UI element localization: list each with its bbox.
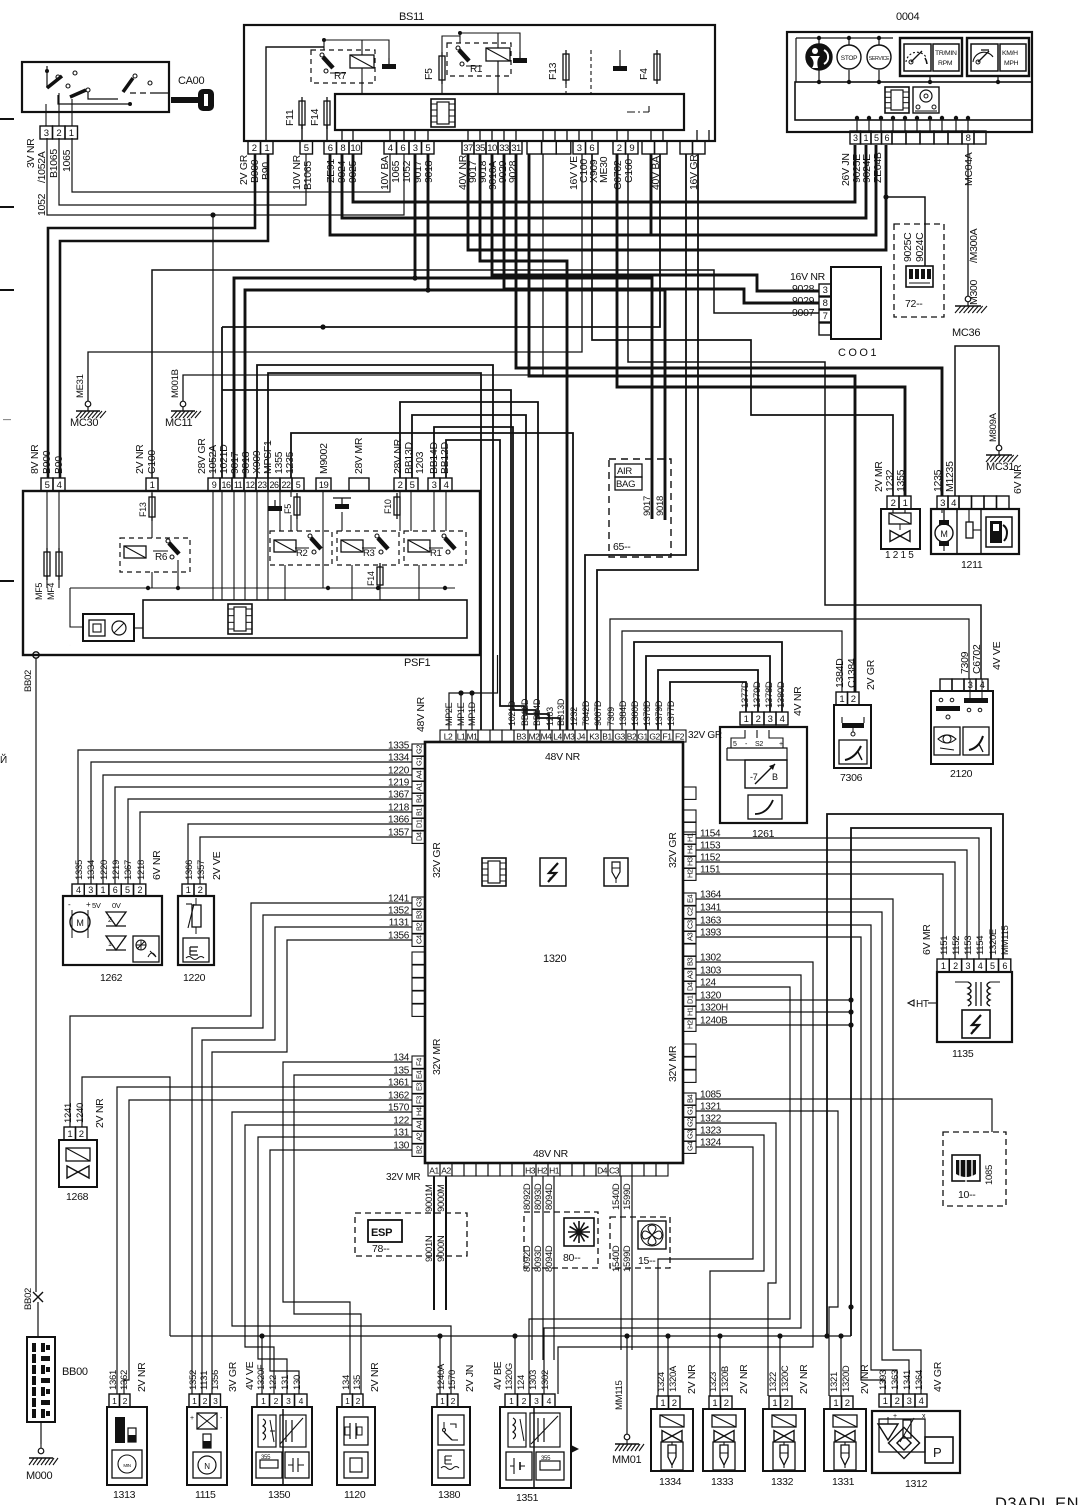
ECU left pin column blanks bbox=[412, 952, 425, 964]
svg-text:1052: 1052 bbox=[36, 193, 48, 216]
svg-text:2: 2 bbox=[672, 1398, 677, 1409]
svg-text:3: 3 bbox=[940, 498, 945, 509]
svg-text:ME30: ME30 bbox=[598, 156, 610, 183]
wire C6702 BS11 pin2 to 1215 pin1 bbox=[617, 154, 905, 496]
svg-text:H3: H3 bbox=[686, 857, 695, 866]
svg-text:7306: 7306 bbox=[840, 772, 863, 784]
component 7306 box bbox=[834, 705, 871, 768]
svg-text:1220: 1220 bbox=[99, 860, 110, 880]
svg-text:1: 1 bbox=[883, 1396, 888, 1407]
branch ZE04B to 72-- box bbox=[883, 194, 888, 199]
svg-text:1: 1 bbox=[69, 128, 74, 139]
svg-text:1218: 1218 bbox=[136, 860, 147, 880]
fuse F4 BS11 bbox=[654, 54, 660, 80]
svg-text:S2: S2 bbox=[755, 741, 763, 748]
svg-text:M4: M4 bbox=[541, 732, 553, 742]
svg-text:C160: C160 bbox=[623, 159, 635, 183]
svg-text:4: 4 bbox=[978, 961, 983, 971]
svg-text:N: N bbox=[204, 1462, 210, 1471]
svg-text:H1: H1 bbox=[686, 1007, 695, 1016]
svg-text:SERVICE: SERVICE bbox=[869, 56, 890, 62]
svg-text:+: + bbox=[779, 741, 783, 748]
svg-text:1: 1 bbox=[833, 1398, 838, 1409]
svg-text:1363: 1363 bbox=[890, 1370, 901, 1390]
wire 9017 PSF1 pin11 to airbag bbox=[234, 278, 652, 519]
wire R7 top bbox=[324, 40, 389, 50]
svg-text:F5: F5 bbox=[283, 504, 293, 514]
injector 1334 box bbox=[651, 1409, 693, 1471]
svg-text:A3: A3 bbox=[686, 932, 695, 941]
relay R3 dashed box bbox=[337, 531, 399, 565]
svg-text:2: 2 bbox=[784, 1398, 789, 1409]
PSF1 pin 1 bbox=[146, 478, 158, 491]
svg-text:A2: A2 bbox=[441, 1166, 451, 1176]
ECU right pin column group 1 bbox=[683, 832, 696, 844]
cluster top bus wire bbox=[796, 37, 893, 39]
wire 1302 ECU to 1351 pin4 bbox=[558, 962, 813, 1394]
svg-text:5: 5 bbox=[733, 741, 737, 748]
wires 1377D-1380D ECU to 1261 bbox=[634, 642, 782, 730]
ground MC31 bbox=[996, 445, 1002, 451]
wire 28V MR BS11 blank to PSF1 M9002 rail bbox=[222, 154, 660, 327]
svg-text:6: 6 bbox=[113, 885, 118, 895]
svg-text:G2: G2 bbox=[649, 732, 660, 742]
svg-text:1151: 1151 bbox=[939, 936, 950, 955]
svg-text:F11: F11 bbox=[284, 109, 296, 126]
wire 1240 from 1268 to bus bbox=[82, 1077, 170, 1336]
0004 blank pins mid bbox=[892, 131, 906, 144]
svg-text:A4: A4 bbox=[415, 1120, 424, 1129]
svg-text:1312: 1312 bbox=[905, 1478, 928, 1490]
wire 1052 CA00 pin3 to BS11 bbox=[47, 138, 404, 215]
svg-text:M: M bbox=[76, 918, 83, 928]
wire 9029 BS11 to C001 pin8 bbox=[504, 154, 819, 303]
chip in cluster bbox=[885, 87, 909, 113]
BS11 pins 2 9 bbox=[613, 141, 626, 154]
svg-text:C3: C3 bbox=[686, 920, 695, 929]
wire 1203 PSF1 pin5 to ECU bbox=[412, 415, 549, 730]
relay coil R7 bbox=[350, 55, 374, 68]
wire 1356 ECU to 1115 pin3 bbox=[212, 940, 412, 1394]
svg-text:3: 3 bbox=[768, 714, 773, 725]
C001 pin 3 bbox=[819, 284, 831, 296]
C001 pin 7 bbox=[819, 310, 831, 322]
svg-text:1203: 1203 bbox=[545, 707, 555, 726]
1351 variable capacitor bbox=[530, 1413, 560, 1447]
svg-text:ZE04B: ZE04B bbox=[872, 152, 884, 183]
1268 valve bbox=[67, 1166, 78, 1178]
relay R1 dashed box PSF1 bbox=[404, 531, 466, 565]
PSF1 blank pin bbox=[349, 478, 369, 491]
svg-text:7842D: 7842D bbox=[581, 700, 591, 726]
svg-text:A1: A1 bbox=[429, 1166, 439, 1176]
svg-text:9025C: 9025C bbox=[902, 232, 914, 262]
1312 bridge diamond bbox=[888, 1427, 919, 1458]
fuse F5 PSF1 bbox=[294, 497, 300, 515]
wire BB12D PSF1 pin4 to ECU bbox=[446, 440, 524, 730]
svg-text:1313: 1313 bbox=[113, 1489, 136, 1501]
svg-text:2: 2 bbox=[756, 714, 761, 725]
1350 resistor 355 bbox=[256, 1452, 282, 1478]
wire BS11 blank to ECU 9007D bbox=[597, 154, 698, 730]
svg-text:1211: 1211 bbox=[961, 559, 983, 571]
svg-text:1154: 1154 bbox=[975, 936, 986, 955]
component 1262 box bbox=[63, 896, 162, 965]
svg-text:G4: G4 bbox=[686, 1142, 695, 1151]
svg-text:1351: 1351 bbox=[516, 1492, 539, 1504]
svg-text:CA00: CA00 bbox=[178, 75, 204, 87]
2120 blank pins + 3 4 bbox=[940, 679, 952, 691]
svg-text:F1: F1 bbox=[663, 732, 673, 742]
svg-text:1: 1 bbox=[839, 694, 844, 705]
svg-text:32V MR: 32V MR bbox=[431, 1038, 443, 1075]
wire ZE04B cluster pin6 to BS11 pin37 bbox=[468, 145, 886, 250]
svg-text:6: 6 bbox=[1002, 961, 1007, 971]
svg-text:1: 1 bbox=[712, 1398, 717, 1409]
svg-text:0V: 0V bbox=[112, 901, 121, 910]
component 1215 box bbox=[881, 509, 920, 549]
svg-text:BB14D: BB14D bbox=[532, 698, 542, 726]
chip icon in ECU bbox=[482, 858, 506, 886]
1334 injector icon bbox=[661, 1442, 683, 1470]
svg-text:R3: R3 bbox=[363, 548, 375, 559]
svg-text:C O O 1: C O O 1 bbox=[838, 347, 876, 359]
7306 pins 1 2 bbox=[836, 692, 848, 705]
svg-text:1384D: 1384D bbox=[618, 700, 628, 726]
svg-text:1135: 1135 bbox=[952, 1048, 974, 1060]
svg-text:E4: E4 bbox=[415, 1070, 424, 1079]
injector 1332 box bbox=[763, 1409, 805, 1471]
svg-text:B1065: B1065 bbox=[302, 161, 314, 190]
svg-text:8: 8 bbox=[823, 298, 828, 309]
wire B90 from BS11 pin1 to PSF1 pin4 bbox=[60, 154, 268, 478]
svg-text:B3: B3 bbox=[516, 732, 526, 742]
svg-text:F2: F2 bbox=[675, 732, 685, 742]
2120 contact icons bbox=[936, 706, 960, 711]
1332 valve bbox=[774, 1431, 784, 1442]
wire R1 top bbox=[460, 33, 520, 44]
component 1313 box bbox=[107, 1407, 147, 1485]
svg-text:2: 2 bbox=[398, 480, 403, 491]
svg-text:15--: 15-- bbox=[638, 1255, 656, 1267]
svg-text:M001B: M001B bbox=[170, 369, 181, 398]
svg-text:G2: G2 bbox=[686, 1118, 695, 1127]
wire 1570 ECU to 1380 pin2 bbox=[232, 1112, 451, 1394]
1262 diode 2 bbox=[106, 936, 126, 950]
svg-text:B4: B4 bbox=[686, 1094, 695, 1103]
svg-text:F13: F13 bbox=[138, 502, 148, 517]
svg-text:1377D: 1377D bbox=[666, 700, 676, 726]
svg-text:1120: 1120 bbox=[344, 1489, 366, 1501]
svg-text:1322: 1322 bbox=[768, 1372, 779, 1392]
wire 1323 ECU to 1333 bbox=[696, 1135, 764, 1396]
wire 1235 PSF1 to ECU 1232 bbox=[291, 433, 573, 730]
component 1351 box bbox=[500, 1407, 571, 1488]
relay R6 dashed box bbox=[120, 538, 190, 572]
1312 inner sub-box bbox=[879, 1419, 925, 1452]
1350 variable capacitor bbox=[280, 1415, 306, 1447]
1313 sensor icons bbox=[115, 1417, 125, 1443]
svg-text:+: + bbox=[86, 900, 91, 909]
svg-text:1262: 1262 bbox=[100, 972, 123, 984]
svg-text:355: 355 bbox=[261, 1455, 271, 1461]
1135 transformer bbox=[968, 982, 971, 1006]
wire 1131 ECU to 1115 pin2 bbox=[202, 927, 412, 1394]
1332 coil bbox=[772, 1415, 796, 1427]
svg-text:2V NR: 2V NR bbox=[369, 1362, 381, 1392]
svg-text:3: 3 bbox=[432, 480, 437, 491]
svg-text:5: 5 bbox=[304, 143, 309, 154]
svg-text:1320A: 1320A bbox=[668, 1365, 679, 1392]
svg-text:1241: 1241 bbox=[63, 1103, 74, 1123]
svg-text:Й: Й bbox=[0, 753, 7, 766]
svg-text:16: 16 bbox=[221, 480, 231, 490]
svg-text:D4: D4 bbox=[597, 1166, 608, 1176]
stub BS11 blank pin on ZE91 line bbox=[650, 154, 653, 235]
PSF1 pins 9 16 11 12 23 26 22 5 bbox=[208, 478, 220, 491]
svg-text:1: 1 bbox=[941, 961, 946, 971]
svg-text:H2: H2 bbox=[537, 1166, 548, 1176]
svg-text:1378D: 1378D bbox=[642, 700, 652, 726]
wire 1334 1262 pin3 bbox=[91, 762, 412, 884]
svg-text:32V MR: 32V MR bbox=[667, 1045, 679, 1082]
wire 1303 ECU to 1351 pin3 bbox=[544, 975, 801, 1394]
svg-text:48V NR: 48V NR bbox=[415, 696, 427, 732]
svg-text:G1: G1 bbox=[637, 732, 648, 742]
wire 9025 BS11 to cluster 9025E bbox=[353, 145, 855, 202]
svg-text:32V GR: 32V GR bbox=[688, 730, 722, 741]
BS11 connector row pins 2 1 bbox=[248, 141, 261, 154]
connector pins CA00 bbox=[40, 126, 53, 139]
svg-text:3: 3 bbox=[823, 285, 828, 296]
svg-text:BB02: BB02 bbox=[23, 1288, 34, 1310]
svg-text:3: 3 bbox=[577, 143, 582, 154]
svg-text:C2: C2 bbox=[686, 907, 695, 916]
wire MM115 rail to 1135 pin6 bbox=[827, 814, 1003, 1336]
svg-text:L2: L2 bbox=[444, 732, 453, 742]
PSF1 pins 5 4 bbox=[41, 478, 53, 491]
svg-text:7309: 7309 bbox=[606, 707, 616, 726]
svg-text:A2: A2 bbox=[415, 1132, 424, 1141]
1220 thermistor bbox=[192, 905, 201, 927]
wire 9016A BS11 to C001 pin3 bbox=[492, 154, 819, 291]
svg-text:MPH: MPH bbox=[1004, 60, 1019, 67]
0004 blank pin right bbox=[974, 131, 986, 144]
PSF1 small module box bbox=[83, 614, 134, 641]
svg-text:4V GR: 4V GR bbox=[932, 1361, 944, 1392]
svg-text:23: 23 bbox=[257, 480, 267, 490]
chip U-BS11 bbox=[431, 99, 455, 127]
1312 P box bbox=[925, 1437, 953, 1463]
svg-text:1333: 1333 bbox=[711, 1476, 734, 1488]
svg-text:1303: 1303 bbox=[528, 1370, 539, 1390]
wire 1320 common rail bbox=[696, 999, 851, 1001]
svg-text:1320G: 1320G bbox=[504, 1363, 515, 1390]
svg-text:B2: B2 bbox=[415, 1145, 424, 1154]
svg-text:1152: 1152 bbox=[951, 936, 962, 955]
svg-text:F14: F14 bbox=[366, 571, 376, 586]
svg-text:G1: G1 bbox=[686, 1106, 695, 1115]
svg-text:M2: M2 bbox=[529, 732, 541, 742]
battery cells bbox=[32, 1343, 36, 1352]
svg-text:8093D: 8093D bbox=[533, 1183, 544, 1210]
dashed box 15-- bbox=[610, 1217, 670, 1268]
page edge mark bbox=[0, 580, 14, 582]
svg-text:1599D: 1599D bbox=[622, 1183, 633, 1210]
component 1380 box bbox=[432, 1407, 470, 1485]
svg-text:MC04A: MC04A bbox=[963, 152, 975, 186]
ECU bottom connector row bbox=[428, 1163, 440, 1176]
svg-text:5: 5 bbox=[990, 961, 995, 971]
svg-text:F14: F14 bbox=[309, 108, 321, 126]
STOP warning light bbox=[837, 45, 861, 69]
svg-text:BB12D: BB12D bbox=[439, 442, 451, 474]
component 1135 box bbox=[937, 972, 1012, 1042]
1312 pins 1 2 3 4 bbox=[879, 1394, 891, 1407]
wire M809A to 1211 pin4 bbox=[955, 346, 999, 496]
svg-text:BB00: BB00 bbox=[62, 1366, 88, 1378]
wire 135 ECU to 1120 pin2 bbox=[294, 1075, 412, 1394]
svg-text:1268: 1268 bbox=[66, 1191, 89, 1203]
wire 9000M ESP bbox=[445, 1176, 447, 1310]
svg-text:1320: 1320 bbox=[543, 953, 566, 965]
1351 arrow bbox=[571, 1445, 579, 1453]
svg-text:12: 12 bbox=[245, 480, 255, 490]
wire 134 ECU to 1120 pin1 bbox=[283, 1062, 412, 1394]
ECU left pin column group 1 bbox=[412, 744, 425, 756]
wire BB14D PSF1 pin3 to ECU bbox=[434, 427, 536, 730]
1211 compartment dividers bbox=[956, 509, 958, 554]
svg-text:1065: 1065 bbox=[61, 149, 73, 172]
speedometer gauge KM/H MPH bbox=[967, 38, 1029, 76]
wire 9017 into airbag from BS11 bbox=[644, 277, 646, 279]
svg-text:9: 9 bbox=[212, 480, 217, 490]
svg-text:5: 5 bbox=[125, 885, 130, 895]
svg-text:D3ADL END: D3ADL END bbox=[995, 1495, 1080, 1505]
PSF1 pins 3 4 bbox=[428, 478, 440, 491]
lightning icon in ECU bbox=[540, 858, 566, 886]
svg-text:1203: 1203 bbox=[414, 451, 426, 474]
wire C160 BS11 pin9 to 2120 pin4 bbox=[628, 154, 981, 679]
cluster stubs circles to bus bbox=[818, 38, 820, 44]
dash-dot link in BS11 bbox=[627, 111, 649, 113]
cluster stubs circles to module bbox=[818, 70, 820, 82]
svg-text:H2: H2 bbox=[686, 1020, 695, 1029]
svg-text:P: P bbox=[933, 1445, 941, 1460]
svg-text:1021D: 1021D bbox=[507, 700, 517, 726]
1261 internal step outline bbox=[731, 730, 745, 748]
wire 1393 ECU to 1312 pin1 bbox=[696, 937, 885, 1394]
page edge mark bbox=[0, 206, 14, 208]
svg-text:+: + bbox=[190, 1415, 194, 1422]
svg-text:K3: K3 bbox=[589, 732, 599, 742]
1135 pins 1-6 bbox=[937, 959, 949, 972]
BS11 pins 4 6 3 5 bbox=[384, 141, 397, 154]
svg-text:A4: A4 bbox=[415, 770, 424, 779]
svg-text:32V GR: 32V GR bbox=[667, 832, 679, 868]
svg-text:8092D: 8092D bbox=[522, 1183, 533, 1210]
wire 8094D bbox=[553, 1176, 555, 1360]
svg-text:MF5: MF5 bbox=[34, 583, 44, 600]
svg-text:10--: 10-- bbox=[958, 1189, 976, 1201]
fuse F14 PSF1 bbox=[377, 567, 383, 585]
switch contact right in CA00 bbox=[133, 74, 137, 78]
svg-text:B4: B4 bbox=[415, 794, 424, 803]
wire F5 to R1 bbox=[442, 36, 460, 52]
diagnostic connector icon bbox=[952, 1155, 980, 1181]
svg-text:M809A: M809A bbox=[988, 412, 999, 442]
BS11 blank pins b bbox=[642, 141, 655, 154]
svg-text:HT: HT bbox=[916, 999, 929, 1010]
svg-text:F13: F13 bbox=[547, 62, 559, 80]
wire 1341 ECU to 1312 pin3 bbox=[696, 912, 909, 1394]
svg-text:6V MR: 6V MR bbox=[921, 924, 933, 955]
svg-text:E3: E3 bbox=[415, 1082, 424, 1091]
wire ME30 BS11 to 1215 pin2 bbox=[592, 154, 893, 496]
svg-text:4V VE: 4V VE bbox=[244, 1361, 256, 1390]
svg-text:BS11: BS11 bbox=[399, 11, 424, 23]
fuse F11 BS11 bbox=[299, 101, 305, 125]
svg-text:MM115: MM115 bbox=[1000, 926, 1011, 955]
injector icon in ECU bbox=[604, 858, 628, 886]
svg-text:6: 6 bbox=[400, 143, 405, 154]
PSF1 internal rail bbox=[70, 587, 455, 589]
svg-text:C4: C4 bbox=[415, 935, 424, 944]
svg-text:6V NR: 6V NR bbox=[151, 850, 163, 880]
svg-text:/M300A: /M300A bbox=[968, 228, 980, 263]
svg-text:2: 2 bbox=[617, 143, 622, 154]
svg-text:4V BE: 4V BE bbox=[492, 1361, 504, 1390]
wire M001B from MC11 up to BS11 bbox=[183, 154, 543, 401]
svg-text:1 2 1 5: 1 2 1 5 bbox=[885, 550, 914, 561]
svg-text:1235: 1235 bbox=[284, 451, 296, 474]
1268 relay coil bbox=[66, 1148, 90, 1161]
wire 1366 1220 pin1 bbox=[188, 824, 412, 884]
svg-text:10: 10 bbox=[487, 143, 497, 154]
svg-text:4: 4 bbox=[780, 714, 785, 725]
1333 coil bbox=[712, 1415, 736, 1427]
svg-text:9007D: 9007D bbox=[593, 700, 603, 726]
svg-text:2V NR: 2V NR bbox=[738, 1364, 750, 1394]
ground chassis near pin 26 bbox=[274, 500, 276, 506]
wire 8093D bbox=[542, 1176, 544, 1360]
injector 1331 box bbox=[824, 1409, 866, 1471]
svg-text:2: 2 bbox=[851, 694, 856, 705]
1262 diode 1 bbox=[106, 912, 126, 926]
svg-text:32V MR: 32V MR bbox=[386, 1172, 420, 1183]
component 1115 box bbox=[187, 1407, 227, 1485]
svg-text:G3: G3 bbox=[614, 732, 625, 742]
ground M000 bbox=[38, 1448, 44, 1454]
bottom supply bus bbox=[170, 1335, 851, 1337]
svg-text:16V NR: 16V NR bbox=[790, 271, 826, 283]
svg-text:3: 3 bbox=[88, 885, 93, 895]
svg-text:+: + bbox=[893, 1413, 897, 1420]
svg-text:MM115: MM115 bbox=[614, 1381, 625, 1410]
svg-text:8: 8 bbox=[340, 143, 345, 154]
wire 1367 1262 pin5 bbox=[128, 799, 412, 884]
BS11 left internal wires bbox=[266, 47, 324, 141]
1215 pins 2 1 bbox=[887, 496, 899, 509]
wire 1085 ECU to 10-- bbox=[696, 1099, 992, 1132]
fan icon 15-- bbox=[638, 1221, 666, 1249]
svg-text:M1235: M1235 bbox=[944, 461, 956, 492]
wire X909 PSF1 riser bbox=[257, 365, 493, 730]
svg-text:4V VE: 4V VE bbox=[991, 641, 1003, 670]
BS11 blank pins a bbox=[527, 141, 542, 154]
1268 pins 1 2 bbox=[64, 1127, 76, 1140]
wire 1361 ECU to 1313 pin1 bbox=[117, 1087, 412, 1394]
